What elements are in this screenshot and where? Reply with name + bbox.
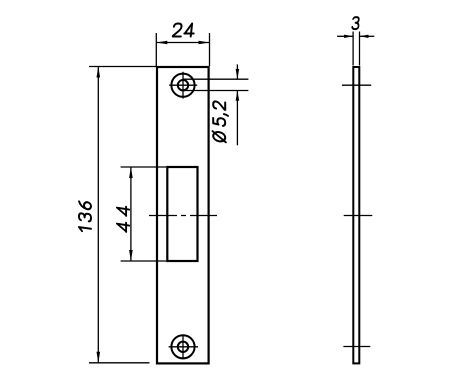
plate outline (front view) bbox=[157, 67, 209, 363]
bottom hole crosshair horizontal bbox=[169, 346, 198, 348]
dim 3 right extension line bbox=[359, 32, 361, 66]
side view plate outline bbox=[353, 67, 359, 363]
dim 24 right arrowhead bbox=[199, 41, 210, 45]
dim 44 top extension line bbox=[121, 166, 167, 168]
dim 136 dimension line bbox=[97, 67, 99, 363]
dim text 136 (rotated) bbox=[79, 201, 91, 232]
dim 24 right extension line bbox=[209, 33, 211, 66]
dim 5,2 upper leader line bbox=[236, 64, 238, 79]
dim 136 bottom extension line bbox=[89, 362, 150, 364]
side view cutout centermark bbox=[344, 215, 373, 217]
dim 136 top extension line bbox=[89, 66, 156, 68]
dim 136 bottom arrowhead bbox=[97, 352, 101, 363]
dim text 44 (rotated) bbox=[117, 205, 129, 232]
side view bottom hole centermark bbox=[343, 346, 370, 348]
dim text Ø5,2 (rotated) bbox=[213, 101, 228, 143]
dim 44 top arrowhead bbox=[129, 167, 133, 178]
top screw hole outer circle bbox=[171, 74, 194, 97]
dim 44 bottom extension line bbox=[121, 260, 167, 262]
dim 44 dimension line bbox=[130, 167, 132, 261]
bottom screw hole outer circle bbox=[171, 335, 194, 358]
dim 5,2 upper extension line bbox=[183, 78, 248, 80]
dim 3 left arrowhead (points right) bbox=[344, 35, 353, 38]
bottom hole crosshair vertical bbox=[182, 335, 184, 359]
top screw hole inner circle bbox=[178, 80, 188, 90]
bottom screw hole inner circle bbox=[178, 342, 188, 352]
dim 136 top arrowhead bbox=[97, 67, 101, 78]
dim 5,2 lower extension line bbox=[183, 90, 248, 92]
cutout centerline (dash-dot) bbox=[149, 215, 217, 217]
latch cutout bbox=[167, 167, 197, 261]
top hole crosshair horizontal bbox=[169, 84, 197, 86]
dim text 24 bbox=[173, 24, 195, 37]
dim 3 left extension line bbox=[352, 32, 354, 66]
dim 24 left arrowhead bbox=[156, 41, 167, 45]
dim 3 right dimension line bbox=[360, 35, 375, 37]
side view top hole centermark bbox=[342, 84, 371, 86]
dim text 3 bbox=[352, 17, 359, 29]
dim 3 right arrowhead (points left) bbox=[360, 35, 369, 38]
dim 3 left dimension line bbox=[337, 35, 353, 37]
dim 24 left extension line bbox=[155, 33, 157, 66]
dim 5,2 upper arrowhead (points down) bbox=[236, 69, 240, 79]
dim 5,2 lower arrowhead (points up) bbox=[236, 91, 240, 101]
dim 44 bottom arrowhead bbox=[129, 250, 133, 261]
top hole crosshair vertical bbox=[182, 72, 184, 99]
dim 24 dimension line bbox=[156, 42, 209, 44]
dim 5,2 lower leader line bbox=[236, 91, 238, 146]
